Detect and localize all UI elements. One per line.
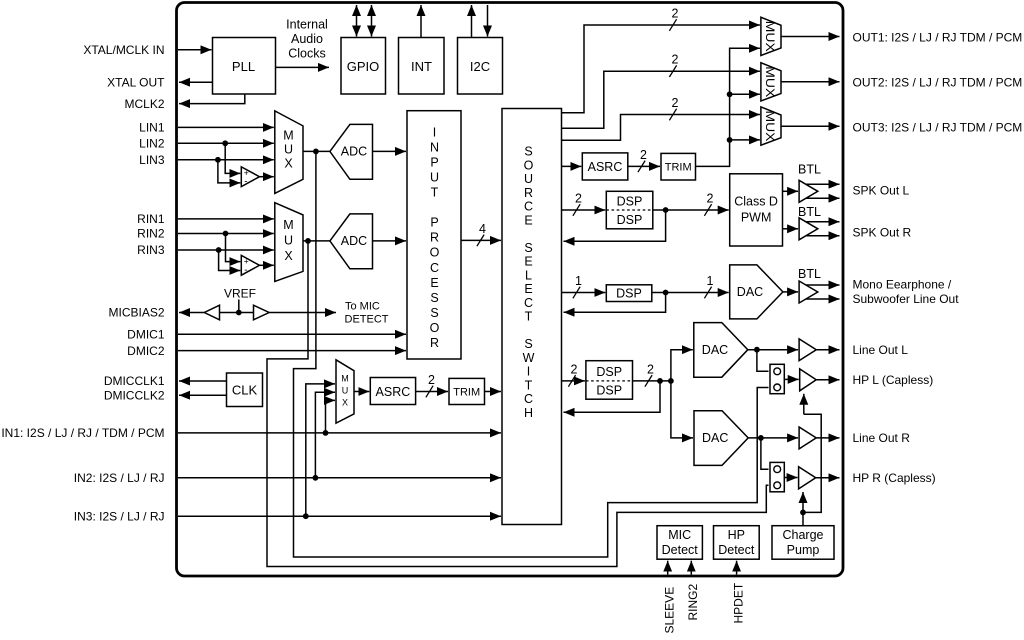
svg-text:MICBIAS2: MICBIAS2 <box>108 306 164 320</box>
HP Detect box <box>714 526 760 560</box>
wire btl mono out minus <box>806 298 840 300</box>
wire spk dsp to class d <box>653 209 729 211</box>
svg-text:Internal: Internal <box>286 18 328 32</box>
svg-text:Mono Eearphone /: Mono Eearphone / <box>853 277 952 291</box>
junction L mux output tap <box>313 149 319 155</box>
svg-text:I2C: I2C <box>470 59 490 74</box>
svg-text:PLL: PLL <box>232 59 255 74</box>
svg-text:Charge: Charge <box>783 528 824 542</box>
wire IN3 to dmic mux <box>306 384 335 516</box>
wire charge pump up <box>802 512 804 525</box>
junction RIN2 tap <box>223 231 229 237</box>
svg-text:SPK Out R: SPK Out R <box>853 226 912 240</box>
GPIO box <box>341 38 386 95</box>
svg-text:PWM: PWM <box>741 211 772 225</box>
svg-text:2: 2 <box>575 192 582 206</box>
wire PLL to XTAL OUT <box>179 81 213 83</box>
wire dac L to hp L select <box>757 350 769 372</box>
svg-text:HPDET: HPDET <box>731 582 745 623</box>
bus width 2 spk in <box>573 204 580 216</box>
arrow HPDET into HP Detect <box>736 561 738 575</box>
PLL box <box>213 38 276 95</box>
wire source select to out1 mux <box>562 25 760 113</box>
svg-text:2: 2 <box>707 192 714 206</box>
svg-text:INT: INT <box>411 59 432 74</box>
bus width 1 mono in <box>573 287 580 299</box>
HP L select box <box>770 364 784 393</box>
svg-text:RIN2: RIN2 <box>137 227 165 241</box>
wire L mux to ADC1 <box>303 150 330 152</box>
wire source select to hp dsp <box>562 380 585 382</box>
svg-text:DSP: DSP <box>617 213 643 227</box>
svg-text:XTAL OUT: XTAL OUT <box>107 75 165 89</box>
wire MICBIAS2 out <box>179 312 204 314</box>
svg-text:RIN1: RIN1 <box>137 212 165 226</box>
wire line amp L to Line Out L <box>816 349 839 351</box>
svg-text:Line Out L: Line Out L <box>853 343 909 357</box>
wire mono dac to btl <box>783 291 798 293</box>
bus width 2 ASRC2-TRIM2 <box>426 386 433 398</box>
bus width 2 spk out <box>704 204 711 216</box>
svg-text:Subwoofer Line Out: Subwoofer Line Out <box>853 292 960 306</box>
wire out1 mux to OUT1 <box>781 36 840 38</box>
svg-text:OUT2: I2S / LJ / RJ TDM / PCM: OUT2: I2S / LJ / RJ TDM / PCM <box>853 76 1023 90</box>
wire DMIC2 to input processor <box>178 350 406 352</box>
bus width 2 out3 <box>669 109 676 121</box>
I2C box <box>458 38 503 95</box>
input mux right channel <box>275 203 303 282</box>
wire between micbias buffers <box>220 312 254 314</box>
svg-text:CLK: CLK <box>232 383 258 398</box>
svg-text:LIN3: LIN3 <box>139 153 165 167</box>
svg-text:DSP: DSP <box>596 365 622 379</box>
bus width 2 ASRC1-TRIM1 <box>638 161 645 173</box>
hp DSP pair box <box>586 361 633 400</box>
HP L select contact top <box>774 368 781 375</box>
diff amp left channel <box>241 167 259 187</box>
out2 mux <box>761 63 781 101</box>
line amp L <box>799 339 816 361</box>
INPUT PROCESSOR box <box>407 111 461 359</box>
junction LIN2 tap <box>222 140 228 146</box>
svg-text:SPK Out L: SPK Out L <box>853 184 910 198</box>
wire out3 mux to OUT3 <box>781 125 840 127</box>
wire to MIC detect <box>269 312 336 314</box>
junction IN2 tap <box>313 475 319 481</box>
spk DSP pair box <box>606 191 653 229</box>
wire source select to mono dsp <box>562 292 606 294</box>
ADC left channel <box>330 124 373 179</box>
svg-text:DMICCLK2: DMICCLK2 <box>104 388 165 402</box>
wire RIN3 to R mux <box>178 249 274 251</box>
wire RIN3 to R amp <box>219 250 241 271</box>
wire IN2 to dmic mux <box>315 392 335 478</box>
wire to dac L <box>671 350 693 381</box>
junction charge pump split <box>800 510 806 516</box>
wire IN1 to source select <box>178 432 501 434</box>
wire class d to btl L <box>783 190 799 192</box>
wire source select to spk dsp <box>562 209 606 211</box>
bus width 1 mono out <box>704 287 711 299</box>
junction R mux output tap <box>305 238 311 244</box>
svg-text:TRIM: TRIM <box>453 387 480 399</box>
wire btl L out plus <box>806 183 840 185</box>
wire dmic mux to ASRC2 <box>354 391 369 393</box>
svg-text:4: 4 <box>479 222 486 236</box>
wire IN3 to source select <box>178 515 501 517</box>
input mux left channel <box>275 111 303 193</box>
BTL driver spk R <box>799 218 818 240</box>
HP R select contact top <box>774 466 781 473</box>
svg-text:Class D: Class D <box>734 195 778 209</box>
junction IN3 tap <box>303 513 309 519</box>
wire PLL internal audio clocks out <box>276 66 330 68</box>
HP amp L <box>800 369 817 391</box>
junction hp loopback tap <box>657 378 663 384</box>
svg-text:DSP: DSP <box>616 287 642 301</box>
svg-text:MCLK2: MCLK2 <box>124 97 164 111</box>
wire hp L select to hp amp L <box>784 378 798 380</box>
svg-text:IN1: I2S / LJ / RJ / TDM / PCM: IN1: I2S / LJ / RJ / TDM / PCM <box>1 426 164 440</box>
svg-text:-: - <box>244 265 247 276</box>
wire R mux bypass to HP R select <box>267 241 769 567</box>
wire DMIC1 to input processor <box>178 333 406 335</box>
wire hp amp L to HP L <box>816 379 839 381</box>
wire charge pump to hp amp R <box>802 492 804 512</box>
wire line amp R to Line Out R <box>816 437 839 439</box>
wire to dac R <box>671 381 693 438</box>
svg-text:DAC: DAC <box>702 431 728 445</box>
wire IN1 to dmic mux <box>326 400 336 433</box>
svg-text:MIC: MIC <box>668 528 691 542</box>
TRIM2 box <box>449 378 485 404</box>
INT box <box>399 38 445 95</box>
svg-text:BTL: BTL <box>798 162 821 176</box>
HP R select contact bottom <box>774 482 781 489</box>
svg-text:2: 2 <box>672 96 679 110</box>
svg-text:2: 2 <box>640 148 647 162</box>
svg-text:1: 1 <box>575 274 582 288</box>
svg-text:Line Out R: Line Out R <box>853 431 911 445</box>
svg-text:TRIM: TRIM <box>665 162 692 174</box>
HP amp R <box>799 467 816 489</box>
spk DSP divider dashed <box>606 209 653 211</box>
wire RIN1 to R mux <box>178 218 274 220</box>
ASRC1 box <box>582 153 628 180</box>
svg-text:DSP: DSP <box>617 194 643 208</box>
svg-text:1: 1 <box>707 274 714 288</box>
junction LIN3 tap <box>215 157 221 163</box>
I2C arrow up <box>471 5 473 38</box>
HP R select box <box>770 462 784 491</box>
svg-text:-: - <box>244 177 247 188</box>
wire XTAL/MCLK IN to PLL <box>178 49 212 51</box>
svg-text:ADC: ADC <box>341 234 367 248</box>
arrow RING2 into MIC Detect <box>690 561 692 575</box>
svg-text:2: 2 <box>672 53 679 67</box>
wire LIN3 to L mux <box>178 159 274 161</box>
I2C arrow down <box>487 5 489 37</box>
arrow SLEEVE into MIC Detect <box>667 561 669 575</box>
svg-text:2: 2 <box>672 7 679 21</box>
wire LIN2 to L amp <box>225 143 240 173</box>
bus width 2 hp out <box>645 375 652 387</box>
wire riser to out2 mux <box>730 93 760 95</box>
svg-text:MUX: MUX <box>763 111 777 142</box>
wire btl R out plus <box>806 221 840 223</box>
wire dac R to line amp R <box>748 437 798 439</box>
svg-text:ASRC: ASRC <box>376 385 411 399</box>
bus width 2 hp in <box>568 375 575 387</box>
svg-text:IN2: I2S / LJ / RJ: IN2: I2S / LJ / RJ <box>74 471 165 485</box>
wire hp R select to hp amp R <box>784 477 797 479</box>
svg-text:RING2: RING2 <box>686 584 700 621</box>
svg-text:VREF: VREF <box>224 287 256 301</box>
svg-text:2: 2 <box>571 362 578 376</box>
wire btl mono out plus <box>806 284 840 286</box>
ADC right channel <box>330 214 373 269</box>
Charge Pump box <box>772 526 834 560</box>
wire VREF to micbias buffers <box>238 300 240 313</box>
svg-text:DAC: DAC <box>737 285 763 299</box>
wire input processor to source select <box>461 239 501 241</box>
TRIM1 box <box>661 153 696 180</box>
wire R amp to R mux <box>260 264 274 266</box>
INT arrow up <box>420 5 422 38</box>
BTL driver spk L <box>799 180 818 202</box>
junction dac R tap <box>758 435 764 441</box>
wire dac R to hp R select <box>761 438 769 469</box>
svg-text:OUT1: I2S / LJ / RJ TDM / PCM: OUT1: I2S / LJ / RJ TDM / PCM <box>853 31 1023 45</box>
svg-text:Detect: Detect <box>662 543 699 557</box>
wire spk loopback to source select <box>564 210 666 241</box>
junction hp dac split <box>668 378 674 384</box>
svg-text:2: 2 <box>647 362 654 376</box>
dmic serial mux <box>336 360 354 423</box>
svg-text:LIN1: LIN1 <box>139 121 165 135</box>
wire LIN2 to L mux <box>178 142 274 144</box>
mono DSP box <box>606 285 652 302</box>
DAC left <box>694 323 748 378</box>
wire LIN3 to L amp <box>218 160 240 183</box>
wire TRIM2 to source select <box>485 391 502 393</box>
bus width 4 IP-SSS <box>477 235 484 247</box>
svg-text:MUX: MUX <box>283 218 293 263</box>
svg-text:To MIC: To MIC <box>345 301 380 313</box>
svg-text:RIN3: RIN3 <box>137 243 165 257</box>
wire class d to btl R <box>783 228 799 230</box>
hp DSP divider dashed <box>586 380 633 382</box>
ASRC2 box <box>370 378 415 405</box>
wire PLL to MCLK2 <box>179 94 245 104</box>
wire source select to out3 mux <box>562 115 760 141</box>
HP L select contact bottom <box>774 384 781 391</box>
buffer facing left MICBIAS <box>204 305 219 320</box>
GPIO bidirectional arrow 2 <box>371 5 373 37</box>
wire ADC1 to input processor <box>373 150 407 152</box>
buffer facing right to MIC detect <box>254 305 270 320</box>
junction spk dsp output tap <box>663 207 669 213</box>
junction dac L tap <box>754 347 760 353</box>
svg-text:BTL: BTL <box>798 267 821 281</box>
wire RIN2 to R amp <box>226 234 241 262</box>
wire hp dsp output <box>633 380 671 382</box>
wire TRIM1 to out mux riser <box>696 48 760 166</box>
DAC right <box>694 411 748 466</box>
svg-text:OUT3: I2S / LJ / RJ TDM / PCM: OUT3: I2S / LJ / RJ TDM / PCM <box>853 120 1023 134</box>
wire RIN2 to R mux <box>178 233 274 235</box>
svg-text:DMIC1: DMIC1 <box>127 328 165 342</box>
svg-text:Detect: Detect <box>718 543 755 557</box>
svg-text:MUX: MUX <box>763 66 777 97</box>
junction VREF tap <box>236 310 242 316</box>
svg-text:GPIO: GPIO <box>347 59 380 74</box>
junction riser to out2 mux <box>727 91 733 97</box>
svg-text:Pump: Pump <box>787 543 820 557</box>
svg-text:2: 2 <box>428 373 435 387</box>
junction riser to out3 mux <box>727 137 733 143</box>
mono DAC <box>730 265 783 319</box>
wire charge pump to hp amp L branch <box>803 414 821 512</box>
SOURCE SELECT SWITCH box <box>502 109 562 525</box>
svg-text:HP: HP <box>728 528 745 542</box>
svg-text:HP R (Capless): HP R (Capless) <box>853 471 936 485</box>
svg-text:DSP: DSP <box>596 384 622 398</box>
wire btl R out minus <box>806 235 840 237</box>
MIC Detect box <box>657 526 702 560</box>
svg-text:Clocks: Clocks <box>288 47 326 61</box>
svg-text:MUX: MUX <box>763 21 777 52</box>
wire ASRC2 to TRIM2 <box>416 391 448 393</box>
wire charge pump arrow to hp amp L <box>803 394 805 415</box>
svg-text:Audio: Audio <box>291 32 323 46</box>
out1 mux <box>761 17 781 55</box>
svg-text:SLEEVE: SLEEVE <box>662 587 676 634</box>
svg-text:BTL: BTL <box>798 205 821 219</box>
wire btl L out minus <box>806 197 840 199</box>
wire L mux bypass to HP L select <box>294 151 769 557</box>
junction IN1 tap <box>323 430 329 436</box>
bus width 2 out1 <box>669 19 676 31</box>
CLK box <box>227 373 263 407</box>
wire ADC2 to input processor <box>373 240 407 242</box>
svg-text:DMIC2: DMIC2 <box>127 344 165 358</box>
junction RIN3 tap <box>216 247 222 253</box>
chip outline border <box>177 3 844 577</box>
wire R mux to ADC2 <box>303 240 330 242</box>
svg-text:LIN2: LIN2 <box>139 137 165 151</box>
diff amp right channel <box>241 255 259 275</box>
svg-text:DMICCLK1: DMICCLK1 <box>104 374 165 388</box>
svg-text:MUX: MUX <box>283 129 293 171</box>
wire IN2 to source select <box>178 477 501 479</box>
wire out2 mux to OUT2 <box>781 81 840 83</box>
svg-text:DAC: DAC <box>702 343 728 357</box>
line amp R <box>799 427 816 449</box>
svg-text:ASRC: ASRC <box>588 160 623 174</box>
wire ASRC1 to TRIM1 <box>628 165 660 167</box>
svg-text:ADC: ADC <box>341 145 367 159</box>
wire riser to out3 mux <box>730 139 760 141</box>
wire L amp to L mux <box>260 176 274 178</box>
svg-text:DETECT: DETECT <box>345 313 389 325</box>
wire dac L to line amp L <box>748 349 798 351</box>
GPIO bidirectional arrow 1 <box>356 5 358 37</box>
wire mono loopback to source select <box>564 293 666 313</box>
wire source select to ASRC1 <box>562 165 582 167</box>
bus width 2 out2 <box>669 65 676 77</box>
out3 mux <box>761 107 781 145</box>
wire CLK to DMICCLK1 <box>179 380 227 382</box>
wire hp loopback to source select <box>564 381 661 412</box>
wire hp amp R to HP R <box>816 477 840 479</box>
svg-text:INPUTPROCESSOR: INPUTPROCESSOR <box>430 125 440 350</box>
svg-text:IN3: I2S / LJ / RJ: IN3: I2S / LJ / RJ <box>74 509 165 523</box>
svg-text:HP L (Capless): HP L (Capless) <box>853 373 934 387</box>
svg-text:XTAL/MCLK IN: XTAL/MCLK IN <box>83 43 164 57</box>
BTL driver mono <box>799 281 818 303</box>
wire mono dsp to dac <box>652 292 729 294</box>
wire CLK to DMICCLK2 <box>179 394 227 396</box>
wire source select to out2 mux <box>562 71 760 128</box>
Class D PWM box <box>730 174 783 246</box>
svg-text:MUX: MUX <box>341 374 349 408</box>
junction mono dsp output tap <box>663 290 669 296</box>
wire LIN1 to L mux <box>178 126 274 128</box>
